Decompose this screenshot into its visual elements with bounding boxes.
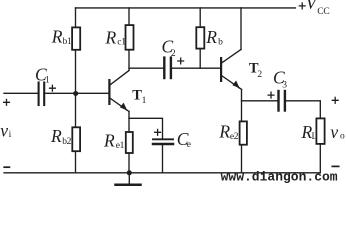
label vi [0,120,11,140]
svg-text:v: v [330,122,338,142]
wire C3 to output corner [286,101,320,119]
svg-text:L: L [312,132,318,142]
wire Rb2 column [75,93,77,173]
svg-text:c1: c1 [117,37,126,47]
svg-text:R: R [218,122,230,142]
wire T1 collector node to C2 [129,67,163,69]
svg-text:e2: e2 [230,132,239,142]
resistor Rb2 [72,127,80,151]
wire input line left of C1 [4,92,38,94]
svg-text:R: R [51,27,63,47]
capacitor C3 [279,91,285,111]
capacitor Ce [153,139,173,144]
wire T2 collector to top rail [240,8,242,50]
wire Rc1 column [128,8,130,71]
wire Ce to bottom rail [162,145,164,173]
svg-text:o: o [340,132,345,142]
svg-text:www.diangon.com: www.diangon.com [221,170,338,185]
svg-text:e1: e1 [116,141,125,151]
svg-text:3: 3 [282,81,287,91]
wire T1 emitter column through Re1 [128,111,130,172]
label Rb [205,27,223,48]
label - at output [332,165,338,167]
wire Rb1 column [75,8,77,93]
label T1 [132,87,146,106]
resistor RL [316,118,324,143]
svg-text:R: R [105,27,117,47]
transistor T1 [108,71,129,112]
label Re1 [103,130,125,151]
label + before C3 [268,92,274,98]
wire C2 to T2 base [172,67,220,69]
label + after C2 [178,58,184,64]
label Re2 [218,122,238,142]
wire emitter node to C3 [242,100,278,102]
node bottom rail / ground junction [127,170,132,175]
label Ce [177,129,191,150]
wire C1 to base node to T1 base [45,92,108,94]
svg-text:b: b [218,38,223,48]
ground [116,173,141,185]
label Rc1 [105,27,127,47]
resistor Re1 [126,132,133,153]
label + at Ce [155,129,161,135]
wire bottom rail [4,172,320,174]
resistor Rc1 [126,25,134,50]
svg-text:b2: b2 [62,137,71,147]
transistor T2 [220,50,242,90]
node base of T1 (junction dot) [73,91,78,96]
svg-text:R: R [50,126,62,146]
label + at input [4,99,10,105]
label RL [301,122,318,142]
label Vcc [306,0,330,17]
wire top supply rail [76,7,296,9]
label + at output [332,97,338,103]
svg-text:1: 1 [45,76,50,86]
label C3 [273,68,287,91]
label Rb2 [50,126,72,147]
resistor Re2 [240,121,247,144]
label C1 [35,65,50,86]
resistor Rb [196,27,204,48]
wire Rb column [199,8,201,68]
svg-text:2: 2 [171,49,176,59]
capacitor C1 [39,83,45,106]
svg-text:e: e [187,140,191,150]
label C2 [162,37,176,60]
svg-text:1: 1 [142,96,147,106]
label + after C1 [50,85,56,91]
label Rb1 [51,27,72,47]
label T2 [249,61,263,81]
svg-text:v: v [0,120,8,140]
wire RL column bottom [319,144,321,173]
capacitor C2 [164,58,171,78]
resistor Rb1 [72,27,80,49]
wire emitter node to Ce [129,118,163,138]
svg-text:R: R [103,130,115,150]
svg-text:CC: CC [317,7,329,17]
svg-text:b1: b1 [63,37,72,47]
svg-text:2: 2 [257,70,262,80]
label - at input [4,166,9,168]
label + at Vcc [299,3,305,9]
label vo [330,122,345,142]
svg-text:R: R [205,27,217,47]
wire T2 emitter column through Re2 [241,89,243,173]
